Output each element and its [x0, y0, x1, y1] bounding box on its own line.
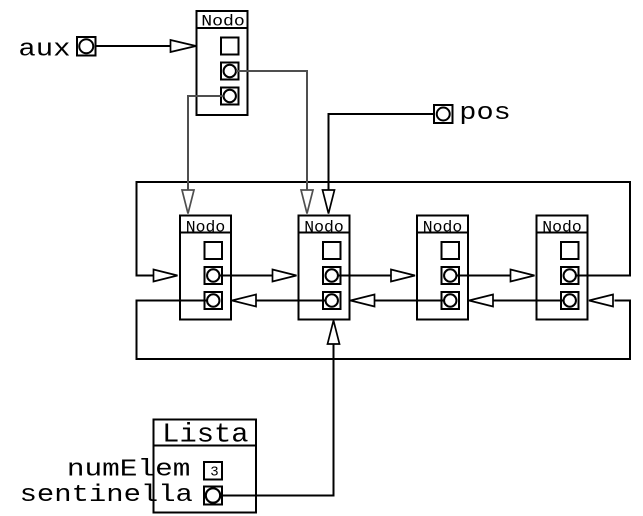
svg-text:pos: pos [459, 100, 511, 127]
svg-text:Nodo: Nodo [186, 219, 225, 237]
svg-text:Nodo: Nodo [423, 219, 462, 237]
svg-text:Nodo: Nodo [201, 13, 245, 31]
svg-text:Nodo: Nodo [542, 219, 581, 237]
svg-text:aux: aux [18, 37, 70, 64]
svg-text:3: 3 [210, 465, 218, 481]
svg-text:sentinella: sentinella [20, 482, 193, 509]
svg-text:Lista: Lista [162, 421, 248, 451]
svg-text:numElem: numElem [67, 457, 190, 484]
svg-text:Nodo: Nodo [304, 219, 343, 237]
